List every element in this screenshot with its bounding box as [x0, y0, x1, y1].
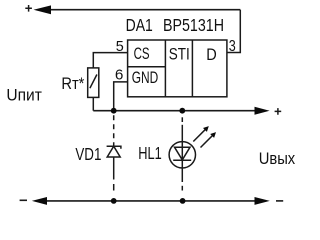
svg-text:STI: STI — [169, 46, 190, 64]
svg-text:D: D — [206, 46, 217, 64]
junction node C (bottom rail / VD1) — [111, 198, 117, 204]
svg-text:5: 5 — [116, 38, 124, 55]
wire: pin 3 to top rail — [227, 10, 240, 53]
zener VD1 cathode bar with tick — [107, 146, 121, 149]
svg-text:VD1: VD1 — [75, 144, 101, 164]
wire: HL1 cathode lead down — [181, 168, 183, 182]
LED HL1 cathode bar — [173, 159, 191, 161]
svg-text:6: 6 — [115, 67, 124, 84]
LED HL1 triangle — [175, 147, 191, 160]
zener VD1 triangle — [107, 146, 120, 157]
LED HL1 vertical line through — [181, 142, 183, 168]
+ sign mid-right — [275, 108, 282, 115]
wire: top positive rail — [50, 9, 240, 11]
wire: dashed link HL1 to bottom rail — [181, 186, 183, 191]
op-amp? no: IC DA1 BP5131H outline — [128, 40, 227, 97]
wire: resistor bottom down to mid rail — [92, 97, 94, 110]
- arrow bottom-left — [32, 197, 47, 205]
LED HL1 emission arrow 2 — [201, 135, 214, 148]
wire: dashed link rail to VD1 cathode — [113, 115, 115, 146]
wire: pin 6 from junction up into IC — [114, 82, 128, 111]
svg-text:GND: GND — [132, 69, 159, 87]
resistor RT* (thermistor) body — [88, 68, 99, 98]
divider between CS and GND — [128, 66, 166, 68]
+ sign top-left — [25, 5, 32, 12]
svg-text:3: 3 — [229, 38, 236, 55]
wire: VD1 anode lead down — [113, 157, 115, 180]
wire: HL1 anode lead — [181, 125, 183, 142]
LED HL1 emission arrow 1 — [193, 129, 206, 142]
- sign bottom-left — [20, 199, 27, 201]
svg-text:Rт*: Rт* — [61, 74, 84, 93]
wire: dashed link VD1 to bottom rail — [113, 184, 115, 191]
divider between CS/GND section and STI — [164, 40, 166, 97]
divider between STI and D — [191, 40, 193, 97]
- sign bottom-right — [276, 200, 283, 202]
+ arrow mid-right — [255, 107, 270, 115]
junction node B (rail / HL1) — [179, 108, 185, 114]
- arrow bottom-right — [255, 197, 270, 205]
junction node A (rail / pin6 / VD1) — [111, 108, 117, 114]
wire: bottom negative rail — [47, 200, 255, 202]
svg-text:CS: CS — [134, 45, 150, 63]
svg-text:DA1: DA1 — [126, 15, 153, 35]
svg-text:BP5131H: BP5131H — [163, 15, 224, 35]
wire: middle positive output rail — [93, 110, 255, 112]
+ terminal arrow top-left — [34, 5, 52, 14]
svg-text:Uвых: Uвых — [259, 150, 296, 168]
svg-text:Uпит: Uпит — [6, 86, 42, 104]
LED HL1 circle — [169, 142, 195, 168]
junction node D (bottom rail / HL1) — [180, 198, 186, 204]
wire: dashed link rail to HL1 — [181, 117, 183, 122]
wire: pin 5 from resistor to IC — [93, 53, 127, 68]
resistor RT* diagonal stroke — [90, 75, 97, 89]
svg-text:HL1: HL1 — [138, 143, 162, 163]
